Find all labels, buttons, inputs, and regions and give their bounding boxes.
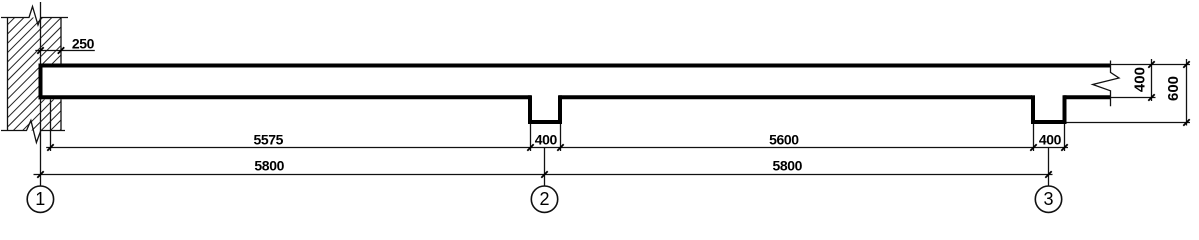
dimension 250 line (35, 50, 95, 52)
extension line wall face bottom (50, 99, 52, 151)
beam right end break symbol (1093, 61, 1119, 107)
notch 3 left edge (1031, 95, 1035, 124)
svg-text:400: 400 (1132, 67, 1149, 92)
svg-text:250: 250 (72, 35, 95, 51)
vertical dim line 400 (1151, 59, 1153, 101)
row1 tick at notch3 right (1061, 144, 1067, 150)
beam body fill (39, 64, 1111, 100)
row2 tick at axis1 (37, 171, 43, 177)
row1 tick at notch2 right (557, 144, 563, 150)
beam bottom thick line segment 1 (39, 95, 532, 99)
beam bottom thick line segment 2 (559, 95, 1032, 99)
vertical dim line 600 (1186, 59, 1188, 126)
svg-text:3: 3 (1043, 189, 1053, 209)
row2 tick at axis2 (541, 171, 547, 177)
axis line 2 (544, 147, 546, 186)
beam top chord thick line (39, 64, 1111, 68)
notch 2 bottom (528, 120, 562, 124)
extension line notch3 right (1064, 124, 1066, 151)
extension line notch3 left (1033, 124, 1035, 151)
axis circle 3 (1035, 186, 1061, 212)
svg-text:5600: 5600 (769, 131, 799, 147)
axis line 1 (40, 2, 42, 186)
tick 400 bottom (1148, 94, 1154, 100)
row1 tick at 50.4 (47, 144, 53, 150)
axis line 3 (1048, 147, 1050, 186)
notch 3 right edge (1063, 95, 1067, 124)
extension line notch2 right (560, 124, 562, 151)
notch 2 right edge (558, 95, 562, 124)
row1 tick at notch2 left (527, 144, 533, 150)
tick at axis 1 / 250 (37, 47, 43, 53)
wall left edge (7, 18, 9, 131)
tick 600 bottom (1183, 119, 1189, 125)
tick 600 top (1183, 61, 1189, 67)
svg-text:400: 400 (1039, 131, 1062, 147)
wall right face (60, 18, 62, 131)
bottom extension line to 400 dim (1111, 97, 1156, 99)
beam bottom thick line segment 3 (1064, 95, 1111, 99)
axis circle 1 (27, 186, 53, 212)
notch level extension line to 600 dim (1067, 122, 1191, 124)
wall hatch (0, 14, 176, 133)
row1 tick at notch3 left (1030, 144, 1036, 150)
top extension line to right dims (1111, 64, 1191, 66)
dimension row 2 line (34, 174, 1053, 176)
notch 3 bottom (1031, 120, 1067, 124)
wall top cut line with break (1, 7, 68, 26)
svg-text:1: 1 (35, 189, 45, 209)
svg-text:400: 400 (535, 131, 558, 147)
svg-text:5575: 5575 (254, 131, 284, 147)
svg-text:600: 600 (1165, 76, 1182, 101)
axis circle 2 (531, 186, 557, 212)
svg-text:2: 2 (539, 189, 549, 209)
tick 400 top (1148, 61, 1154, 67)
svg-text:5800: 5800 (254, 158, 284, 174)
beam left end thick edge (39, 64, 43, 100)
extension line notch2 left (530, 124, 532, 151)
svg-text:5800: 5800 (773, 158, 803, 174)
tick at wall face / 250 (58, 47, 64, 53)
wall bottom cut line with break (1, 120, 65, 142)
dimension row 1 line (46, 147, 1068, 149)
row2 tick at axis3 (1045, 171, 1051, 177)
notch 2 left edge (528, 95, 532, 124)
